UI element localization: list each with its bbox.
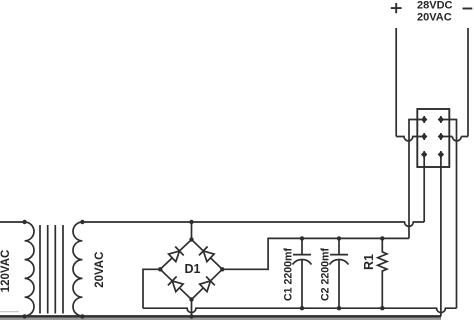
resistor R1 (378, 238, 387, 308)
node dot C1 bottom (300, 306, 304, 310)
label - (negative terminal) (463, 8, 473, 10)
wire top-left pin to bridge right vertex node (222, 120, 424, 270)
node dot C1 top (300, 236, 304, 240)
capacitor C1 (293, 238, 312, 308)
pin 2 (top-right) (438, 116, 443, 123)
svg-text:R1: R1 (362, 254, 376, 270)
wire bottom-right pin down to bottom rail (440, 155, 442, 317)
pin 4 (middle-right) (438, 133, 443, 140)
wire AC node B: bridge left vertex around to right side with hops (143, 269, 457, 312)
diode D1c bottom-left (168, 277, 183, 292)
node dot primary bottom (22, 314, 26, 318)
node dot bridge top rail junction (189, 220, 193, 224)
node dot R1 bottom (380, 306, 384, 310)
svg-text:28VDC: 28VDC (417, 0, 453, 11)
node dot bridge left vertex (158, 267, 162, 271)
wire - lead down to middle-right pin with hop (441, 28, 468, 141)
svg-text:120VAC: 120VAC (0, 250, 12, 293)
diode D1b top-right (199, 247, 214, 262)
gray under-edge of bottom rail (0, 318, 441, 320)
wire bridge bottom vertex to bottom rail (191, 300, 193, 317)
node dot bridge bottom vertex (189, 297, 193, 301)
node dot secondary top (80, 220, 84, 224)
svg-text:C2 2200mf: C2 2200mf (319, 248, 331, 301)
connector J1 body (417, 109, 449, 167)
capacitor C2 (330, 238, 349, 308)
diode D1a top-left (169, 247, 184, 262)
transformer T1 core (40, 225, 63, 314)
transformer T1 secondary winding (73, 222, 82, 316)
wire + lead down to middle-left pin with hop (396, 28, 424, 141)
wire top-right pin down right side to AC node B (441, 120, 457, 309)
bridge rectifier D1 diamond (160, 240, 222, 300)
svg-text:20VAC: 20VAC (417, 11, 452, 23)
svg-text:C1 2200mf: C1 2200mf (283, 248, 295, 301)
label + (positive terminal) (391, 3, 402, 13)
node dot secondary bottom (80, 314, 84, 318)
pin 5 (bottom-left) (422, 151, 427, 158)
wire bridge top vertex to top rail (191, 222, 193, 240)
diode D1d bottom-right (200, 277, 215, 292)
node dot primary top (22, 220, 26, 224)
node dot bridge top vertex (189, 237, 193, 241)
wire 120VAC bottom lead / bottom rail left (0, 315, 441, 318)
wire bottom-left pin to top rail (423, 155, 425, 223)
pin 3 (middle-left) (422, 133, 427, 140)
svg-text:20VAC: 20VAC (94, 252, 106, 288)
node dot bridge right vertex (220, 267, 224, 271)
pin 6 (bottom-right) (438, 151, 443, 158)
transformer T1 primary winding (25, 222, 34, 316)
node dot bridge bottom to rail (189, 314, 193, 318)
wire top rail (secondary top / DC+ rail) with hop at x409 (82, 222, 424, 226)
wire 120VAC top lead (0, 221, 25, 223)
svg-text:D1: D1 (185, 262, 201, 276)
node dot R1 top (380, 236, 384, 240)
faint scan artifact line bottom-left (0, 311, 19, 313)
node dot C2 top (337, 236, 341, 240)
pin 1 (top-left) (422, 116, 427, 123)
node dot C2 bottom (337, 306, 341, 310)
